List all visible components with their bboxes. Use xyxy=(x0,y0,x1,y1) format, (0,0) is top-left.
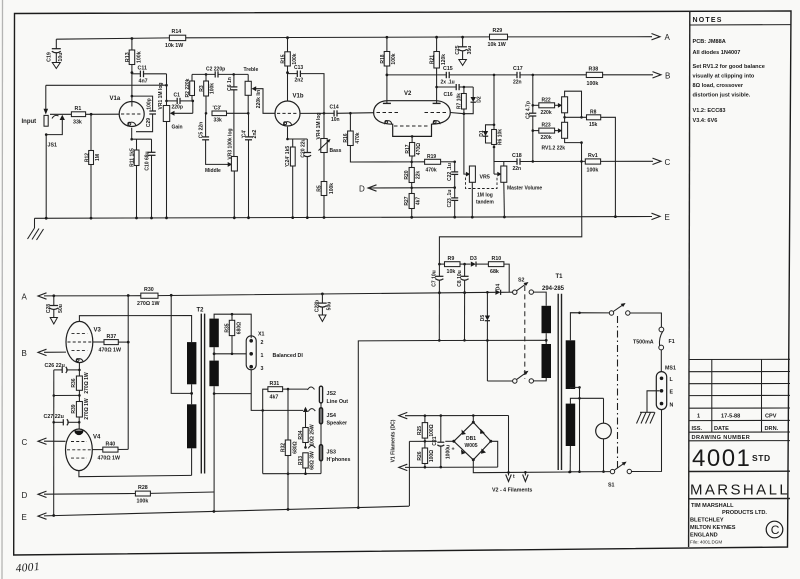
V3 plate lead to T2 xyxy=(79,316,191,343)
svg-text:10n: 10n xyxy=(331,117,340,123)
svg-text:R21: R21 xyxy=(430,55,436,64)
svg-text:C26 22u: C26 22u xyxy=(45,363,65,369)
svg-text:R3: R3 xyxy=(199,85,205,92)
svg-text:R6 10k: R6 10k xyxy=(497,129,503,145)
svg-text:VR3 100k log: VR3 100k log xyxy=(228,128,234,159)
T1 secondary HT winding xyxy=(566,340,576,389)
svg-text:PRODUCTS LTD.: PRODUCTS LTD. xyxy=(722,510,767,516)
resistor R28 100k on D row xyxy=(44,485,214,504)
resistor R1 33k xyxy=(50,106,119,125)
svg-text:File: 4001.DGM: File: 4001.DGM xyxy=(690,540,722,545)
T2 primary winding upper xyxy=(187,342,196,384)
capacitor C20 22u xyxy=(300,138,311,218)
svg-text:TIM MARSHALL: TIM MARSHALL xyxy=(691,503,734,509)
svg-text:50u: 50u xyxy=(326,302,332,311)
T1 filament winding xyxy=(566,404,576,446)
connector X1 (Balanced DI) xyxy=(246,332,264,372)
notes text xyxy=(693,39,765,124)
svg-text:JS3: JS3 xyxy=(327,449,336,455)
svg-text:JS2: JS2 xyxy=(327,391,336,397)
resistor R8 15k xyxy=(565,109,616,216)
V2 plate bars xyxy=(383,101,441,104)
T2 primary winding lower xyxy=(187,404,196,448)
svg-text:220p: 220p xyxy=(172,104,183,110)
svg-text:68k: 68k xyxy=(490,269,499,275)
svg-text:R32: R32 xyxy=(280,443,286,452)
capacitor C10 68u xyxy=(145,139,156,218)
svg-text:A: A xyxy=(665,33,671,42)
title block table xyxy=(689,359,790,432)
DB1 top lead xyxy=(472,416,474,423)
T2 primary bottom lead xyxy=(191,448,193,475)
svg-text:33k: 33k xyxy=(214,117,223,123)
resistor R40 470R 1W xyxy=(92,441,128,461)
svg-text:V1 Filaments (DC): V1 Filaments (DC) xyxy=(391,419,397,462)
node rail-C25 xyxy=(461,36,464,39)
svg-text:Input: Input xyxy=(22,119,37,125)
svg-text:DRN.: DRN. xyxy=(765,426,779,432)
arrow E out (top section) xyxy=(652,213,670,222)
resistor R36 270R 1W xyxy=(71,370,90,396)
svg-text:2x .1u: 2x .1u xyxy=(441,79,455,85)
svg-text:R39: R39 xyxy=(71,404,77,413)
svg-text:V3: V3 xyxy=(94,328,102,334)
svg-text:R8: R8 xyxy=(590,109,597,115)
svg-text:C10 68u: C10 68u xyxy=(145,151,151,170)
svg-text:R25: R25 xyxy=(417,426,423,435)
jack JS4 Speaker with make contact xyxy=(303,407,347,428)
resistor R38 100k xyxy=(586,67,653,88)
node C2-C6 xyxy=(232,73,235,76)
resistor R23 220k xyxy=(532,123,559,142)
svg-text:X1: X1 xyxy=(258,332,265,338)
cathode rail link row xyxy=(53,394,81,397)
svg-text:R15: R15 xyxy=(281,54,287,63)
arrow D (to bottom section) xyxy=(359,185,412,194)
resistor R20 22k xyxy=(404,162,421,188)
vertical A to T2 centre tap xyxy=(171,295,191,393)
svg-text:470k: 470k xyxy=(355,132,361,143)
caps columns down to CT return row xyxy=(438,293,466,342)
resistor R11 1k5 xyxy=(130,139,139,218)
svg-text:4001: 4001 xyxy=(692,445,751,472)
node VR1 wiper / C1 / R2 xyxy=(192,100,195,114)
svg-text:R7 10k: R7 10k xyxy=(457,93,463,109)
svg-text:V1a: V1a xyxy=(110,96,121,102)
svg-text:'C4': 'C4' xyxy=(242,130,248,139)
capacitor C14 10n xyxy=(324,105,374,124)
resistor R25 100R xyxy=(417,416,435,442)
potentiometer VR2 220k lin (Treble) xyxy=(244,67,276,114)
chassis ground symbol left xyxy=(28,218,44,240)
svg-text:NOTES: NOTES xyxy=(693,17,723,24)
svg-text:100k: 100k xyxy=(210,83,216,94)
resistor R18 100k xyxy=(380,37,397,101)
T2 core xyxy=(201,314,204,474)
svg-text:C: C xyxy=(771,523,780,537)
svg-text:270Ω 1W: 270Ω 1W xyxy=(84,372,90,394)
svg-text:N: N xyxy=(670,402,674,408)
resistor R19 470k xyxy=(412,154,455,174)
svg-text:tandem: tandem xyxy=(476,200,494,206)
svg-text:C18: C18 xyxy=(512,153,522,159)
svg-text:22n: 22n xyxy=(513,166,522,172)
svg-text:35u: 35u xyxy=(467,46,473,55)
capacitor C2 220p row xyxy=(192,66,248,77)
resistor R15 100k xyxy=(281,38,298,101)
svg-text:R14: R14 xyxy=(172,29,182,35)
svg-text:10Ω 25W: 10Ω 25W xyxy=(310,424,316,446)
svg-text:17-5-88: 17-5-88 xyxy=(721,414,740,420)
node R3 bottom xyxy=(205,112,208,115)
svg-text:100k: 100k xyxy=(587,81,599,87)
svg-text:R9: R9 xyxy=(448,256,455,262)
svg-text:STD: STD xyxy=(752,453,771,463)
V2 grid dashes xyxy=(377,113,448,127)
node A-R40col xyxy=(127,294,130,297)
resistor R22 220k xyxy=(532,97,559,116)
svg-text:22n: 22n xyxy=(513,79,522,85)
svg-text:C6 1n: C6 1n xyxy=(227,77,233,91)
wire C to V4 grid xyxy=(44,440,66,442)
triode V1b xyxy=(275,94,304,127)
svg-text:R33: R33 xyxy=(298,456,304,465)
T1 filament bottom lead xyxy=(569,446,572,473)
svg-text:W005: W005 xyxy=(465,443,478,449)
jack JS2 Line Out xyxy=(288,386,348,405)
svg-text:D: D xyxy=(359,185,365,194)
tandem pot VR5 section b (master volume) xyxy=(480,162,507,218)
fuse F1 T500mA xyxy=(633,327,675,350)
svg-text:Speaker: Speaker xyxy=(327,421,348,427)
Balanced DI label xyxy=(273,353,304,359)
svg-text:H'phones: H'phones xyxy=(327,457,351,463)
left bypass column xyxy=(53,370,55,516)
capacitor C26 22u xyxy=(45,363,80,373)
wire VR5b feed from R6/D1 xyxy=(493,147,495,174)
svg-text:100k: 100k xyxy=(587,168,599,174)
svg-text:D: D xyxy=(22,491,28,500)
resistor R37 470R 1W xyxy=(93,334,130,354)
resistor R29 10k 1W xyxy=(488,28,508,48)
pilot lamp xyxy=(596,423,612,473)
pentode-pair V2 envelope xyxy=(374,91,451,136)
svg-text:Middle: Middle xyxy=(205,168,221,174)
ground arrow below C25 xyxy=(459,60,467,66)
wire D row to C22/C23 node xyxy=(412,186,456,189)
capacitor C27 22u xyxy=(44,414,81,426)
T2 secondary top lead to X1 pin2 xyxy=(214,314,251,338)
capacitor C6 1n xyxy=(227,74,237,156)
svg-text:Balanced DI: Balanced DI xyxy=(273,353,304,359)
node A-C28b xyxy=(321,293,324,296)
node rail-R21 xyxy=(435,36,438,39)
capacitor C5 22n xyxy=(199,113,229,164)
wire C11 to VR1 top xyxy=(166,74,168,106)
resistor R21 120k xyxy=(430,37,447,101)
svg-text:DB1: DB1 xyxy=(466,436,476,442)
arrow C out xyxy=(653,158,671,167)
svg-text:visually at clipping into: visually at clipping into xyxy=(693,74,755,80)
svg-text:680Ω: 680Ω xyxy=(293,441,299,453)
svg-text:C13: C13 xyxy=(294,65,303,71)
wire R7 node to VR5a wiper xyxy=(464,114,467,174)
svg-text:R37: R37 xyxy=(107,334,117,340)
master volume label xyxy=(507,186,542,192)
CT return row to T1 xyxy=(437,339,546,341)
switch S2 pole 2 xyxy=(487,371,533,383)
svg-text:R11 1k5: R11 1k5 xyxy=(130,148,136,167)
svg-text:RV1.2 22k: RV1.2 22k xyxy=(542,146,566,152)
svg-text:C14: C14 xyxy=(330,105,339,111)
resistor R17 470 xyxy=(405,143,422,162)
svg-text:Master Volume: Master Volume xyxy=(507,186,542,192)
svg-text:ISS.: ISS. xyxy=(692,426,703,432)
diode D2 xyxy=(464,87,482,114)
svg-text:S1: S1 xyxy=(608,483,615,489)
node C17 / preset column xyxy=(532,74,535,77)
svg-text:DRAWING NUMBER: DRAWING NUMBER xyxy=(692,435,751,441)
node tone stack bottom xyxy=(247,112,250,115)
svg-text:JS4: JS4 xyxy=(327,413,336,419)
circled C logo xyxy=(766,521,783,538)
svg-text:V2: V2 xyxy=(404,91,412,97)
capacitor C13 2n2 xyxy=(288,65,325,114)
svg-text:DATE: DATE xyxy=(714,426,729,432)
T1 primary winding upper xyxy=(542,306,552,333)
svg-text:C5 22n: C5 22n xyxy=(199,122,205,138)
svg-text:15k: 15k xyxy=(589,122,598,128)
resistor R9 10k xyxy=(438,256,470,275)
svg-text:V2 - 4 Filaments: V2 - 4 Filaments xyxy=(492,488,532,494)
V2 right grid wire to R7 node xyxy=(450,113,464,114)
svg-text:100k: 100k xyxy=(391,53,397,64)
resistor R34 10R 25W xyxy=(298,424,316,449)
DB1 right lead xyxy=(491,441,498,467)
svg-text:T1: T1 xyxy=(556,274,564,280)
svg-text:C28: C28 xyxy=(46,304,52,313)
jack sleeve common line xyxy=(263,403,321,475)
handwritten 4001 xyxy=(15,561,40,575)
svg-text:470Ω 1W: 470Ω 1W xyxy=(98,455,121,461)
capacitor C1 220p xyxy=(167,92,193,110)
node C15-R6 column xyxy=(493,74,496,77)
arrow C in xyxy=(22,438,47,447)
svg-text:Treble: Treble xyxy=(244,67,259,73)
V2-4 Filaments label xyxy=(492,488,532,494)
resistor R2 220k xyxy=(185,74,195,101)
arrow D in xyxy=(22,491,47,500)
vertical A to R37/R40 xyxy=(127,296,129,450)
svg-text:R17: R17 xyxy=(405,144,411,153)
company address xyxy=(690,503,767,545)
T1 primary CT xyxy=(545,333,548,344)
potentiometer VR1 1M log (Gain) xyxy=(158,83,193,218)
diode D1 xyxy=(479,125,494,143)
svg-text:F1: F1 xyxy=(669,339,675,345)
node rail-R18 xyxy=(386,36,389,39)
svg-text:R28: R28 xyxy=(138,485,148,491)
svg-text:S2: S2 xyxy=(518,278,525,284)
svg-text:MS1: MS1 xyxy=(665,366,676,372)
node D row xyxy=(410,187,413,190)
capacitor C7 10u xyxy=(432,264,444,293)
svg-text:All diodes 1N4007: All diodes 1N4007 xyxy=(693,50,741,56)
node E-T2sec xyxy=(213,510,216,513)
wire JS1 breaker to VR1 column xyxy=(46,84,168,87)
resistor R35 680R xyxy=(225,313,243,355)
resistor R26 100R xyxy=(417,441,435,467)
notes panel divider xyxy=(689,11,690,547)
svg-text:R13: R13 xyxy=(125,52,131,62)
svg-text:294-285: 294-285 xyxy=(542,286,565,292)
resistor R14 10k 1W xyxy=(165,29,186,49)
arrow A out xyxy=(652,33,671,42)
svg-text:R36: R36 xyxy=(71,378,77,387)
svg-text:T2: T2 xyxy=(197,308,205,314)
svg-text:10u: 10u xyxy=(58,52,64,61)
svg-text:R26: R26 xyxy=(417,451,423,460)
T1 primary winding lower xyxy=(542,344,552,378)
svg-text:C15: C15 xyxy=(443,66,453,72)
svg-text:C11: C11 xyxy=(138,65,147,71)
capacitor C29 100p (plate-cathode loop) xyxy=(131,95,156,132)
svg-text:Set RV1.2 for good balance: Set RV1.2 for good balance xyxy=(693,64,765,70)
switch S1 xyxy=(570,462,631,489)
svg-text:1M log: 1M log xyxy=(477,193,493,199)
svg-text:C2 4.7p: C2 4.7p xyxy=(526,101,532,119)
svg-text:100k: 100k xyxy=(292,53,298,64)
T2 primary CT node xyxy=(190,384,193,404)
node R18 plate xyxy=(386,74,389,77)
capacitor C22 .1u xyxy=(447,162,458,188)
filament bottom row with arrow xyxy=(399,464,498,470)
T1 core xyxy=(558,294,561,470)
capacitor C16 .1u row xyxy=(435,84,473,98)
svg-text:10k 1W: 10k 1W xyxy=(165,43,183,49)
capacitor C21 1000u xyxy=(432,416,452,467)
V4 plate lead to T2 bottom xyxy=(79,471,192,477)
svg-text:C21: C21 xyxy=(432,436,438,445)
svg-text:E: E xyxy=(665,213,670,222)
svg-text:C20 22u: C20 22u xyxy=(300,138,306,157)
jack JS3 H'phones xyxy=(308,445,350,463)
MARSHALL logotype xyxy=(689,482,790,499)
potentiometer VR4 1M log (Bass) xyxy=(316,113,342,182)
svg-text:C22 .1u: C22 .1u xyxy=(447,163,453,181)
svg-text:MARSHALL: MARSHALL xyxy=(690,482,790,499)
V1b cathode components xyxy=(286,127,307,141)
capacitor C11 4n7 xyxy=(132,65,167,84)
capacitor C18 22n xyxy=(504,153,586,172)
node V1b plate xyxy=(286,71,289,74)
capacitor C19 10u xyxy=(47,39,64,62)
svg-text:470Ω: 470Ω xyxy=(416,143,422,155)
svg-text:C25: C25 xyxy=(455,45,461,54)
svg-text:50u: 50u xyxy=(58,304,64,313)
speaker line row to jacks xyxy=(251,394,303,412)
svg-text:T500mA: T500mA xyxy=(633,340,654,346)
svg-text:R19: R19 xyxy=(427,154,436,160)
svg-text:D2: D2 xyxy=(476,96,482,103)
capacitor C15 .1u (plate coupling row) xyxy=(387,66,517,85)
svg-text:VR4 1M log: VR4 1M log xyxy=(316,113,322,140)
transformer T2 label xyxy=(197,308,205,314)
svg-text:distortion just visible.: distortion just visible. xyxy=(693,93,751,99)
svg-text:C17: C17 xyxy=(513,66,523,72)
filament mid row with C21 xyxy=(409,440,453,443)
V2 cathode node xyxy=(411,135,414,142)
svg-text:10k 1W: 10k 1W xyxy=(488,42,506,48)
wire R31 left col down xyxy=(262,410,264,473)
tandem pot VR5 1M log section a xyxy=(466,166,476,217)
potentiometer VR3 100k log (Middle) xyxy=(205,128,237,218)
svg-text:E: E xyxy=(670,390,674,396)
svg-text:R29: R29 xyxy=(493,28,503,34)
DB1 bottom lead to V2 filament row xyxy=(473,460,571,474)
HT rail bottom (A row) xyxy=(44,292,495,296)
mid node to E bus link xyxy=(408,441,410,506)
scan artifact left edge xyxy=(1,0,4,579)
svg-text:33k: 33k xyxy=(73,119,82,125)
svg-text:220k lin: 220k lin xyxy=(256,90,262,108)
T2 secondary winding upper xyxy=(209,319,218,348)
svg-text:C23 .1u: C23 .1u xyxy=(447,190,453,208)
svg-text:D5: D5 xyxy=(480,315,486,322)
capacitor C4 2n2 xyxy=(242,113,258,218)
node A-T2ct xyxy=(170,294,173,297)
wire B to V3 grid xyxy=(44,351,66,353)
jack JS1 xyxy=(44,85,65,218)
diode D4 on A row xyxy=(486,284,512,295)
resistor R3 100k xyxy=(199,74,216,113)
main ground bus (E) xyxy=(35,217,653,219)
pentode V4 (inverted) xyxy=(66,422,102,470)
input label xyxy=(22,119,37,125)
jack common to E link xyxy=(358,341,437,508)
svg-text:'C24' 1k5: 'C24' 1k5 xyxy=(285,146,291,168)
arrow B in xyxy=(22,349,47,358)
VR5 gang dashed box xyxy=(466,178,498,206)
node C2-R3 xyxy=(205,73,208,76)
svg-text:C19: C19 xyxy=(47,52,53,62)
resistor R5 100k xyxy=(316,182,335,218)
svg-text:R16: R16 xyxy=(343,133,349,142)
svg-text:4n7: 4n7 xyxy=(139,78,148,84)
svg-text:B: B xyxy=(22,349,27,358)
svg-text:D4: D4 xyxy=(496,284,502,291)
capacitor C8 10u xyxy=(457,264,469,293)
svg-text:120k: 120k xyxy=(441,54,447,65)
svg-text:100Ω: 100Ω xyxy=(429,424,435,436)
svg-text:4k7: 4k7 xyxy=(415,197,421,206)
arrow B out xyxy=(653,72,671,81)
svg-text:68Ω 3W: 68Ω 3W xyxy=(310,451,316,470)
bridge rectifier DB1 W005 xyxy=(452,421,493,462)
resistor R32 680R xyxy=(280,389,298,509)
svg-text:C29: C29 xyxy=(146,118,152,127)
capacitor C28b 50u xyxy=(314,294,332,322)
svg-text:VR1 1M log: VR1 1M log xyxy=(158,83,164,110)
resistor R30 270R 1W xyxy=(137,287,160,307)
capacitor C23 .1u xyxy=(447,188,458,218)
S1 gang dash-dot link xyxy=(617,316,619,469)
T2 secondary winding lower xyxy=(209,361,218,387)
V1 filament supply: top row with arrow xyxy=(399,412,509,418)
svg-text:22k: 22k xyxy=(415,171,421,180)
node preset middle xyxy=(563,116,583,119)
resistor R33 68R 3W xyxy=(298,451,316,474)
